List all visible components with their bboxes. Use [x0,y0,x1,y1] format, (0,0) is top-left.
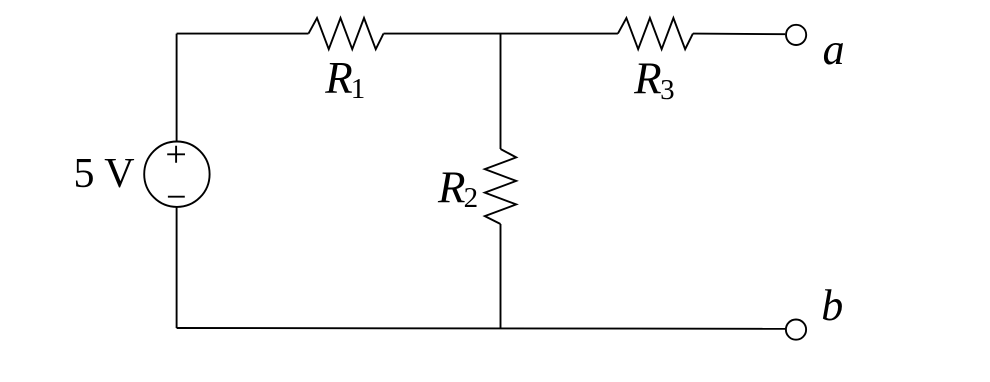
svg-text:R: R [633,54,662,104]
wire: R2 bottom down to bottom wire junction [500,224,502,328]
wire: R1 to middle junction node [384,33,501,35]
svg-text:b: b [821,281,843,330]
wire: left vertical lower (source bottom down to bottom-left corner) [176,207,178,328]
voltage source plus sign [167,146,185,163]
wire: top horizontal from corner to R1 [177,33,309,35]
wire: middle vertical from junction down to R2 [500,34,502,149]
resistor R3 zigzag [618,18,693,49]
terminal a circle [786,25,806,45]
resistor R1 zigzag [309,18,384,49]
svg-text:3: 3 [660,74,675,106]
svg-text:5 V: 5 V [74,151,135,197]
voltage source V1 circle [144,142,209,207]
wire: R3 to terminal a [693,33,785,36]
svg-text:R: R [324,53,353,103]
wire: middle junction to R3 [501,33,618,35]
svg-text:1: 1 [351,73,366,105]
voltage source minus sign [168,196,185,198]
svg-text:2: 2 [464,182,479,214]
resistor R2 zigzag [485,149,516,224]
terminal b circle [786,320,806,340]
svg-text:a: a [823,25,845,74]
svg-text:R: R [437,162,466,212]
wire: bottom horizontal from left corner to terminal b [177,327,786,330]
wire: left vertical upper (top-left corner down to source top) [176,34,178,142]
